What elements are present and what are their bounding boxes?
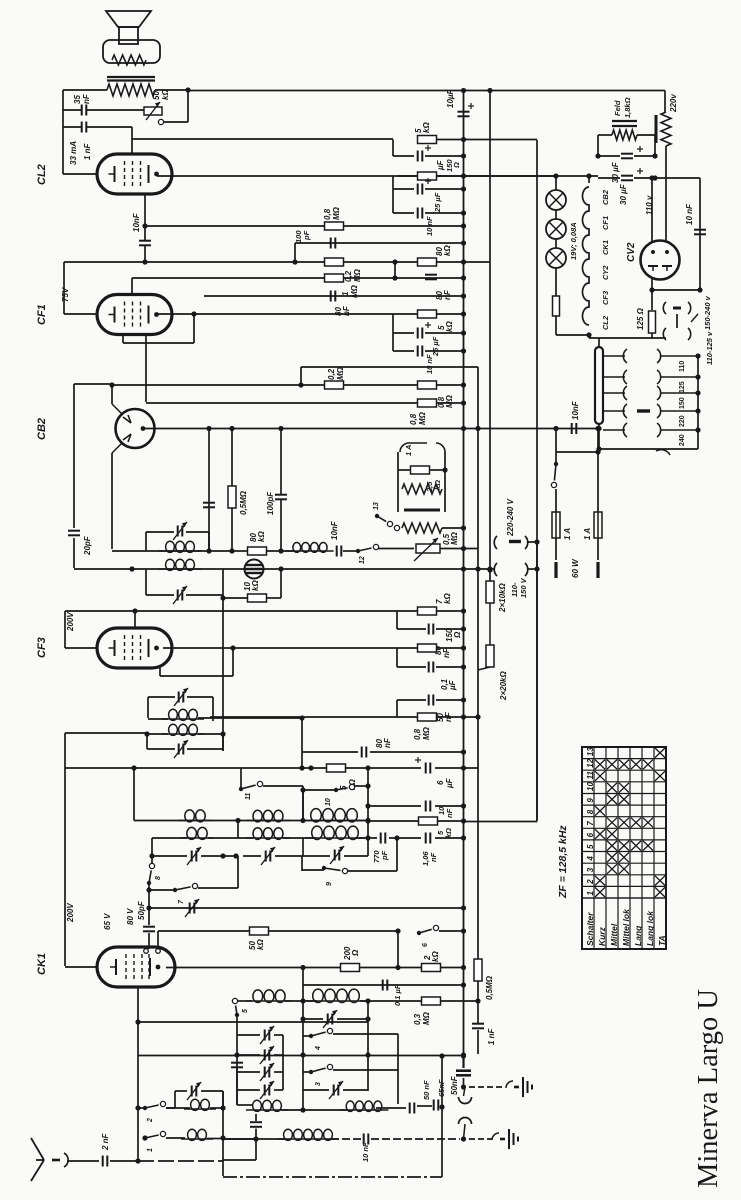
- svg-text:1 nF: 1 nF: [487, 1027, 496, 1045]
- label 0.8M row717 a: [413, 728, 422, 740]
- label 10nF det: [330, 520, 339, 540]
- wire sw3 b: [333, 1069, 398, 1071]
- wire row838 f: [435, 837, 464, 839]
- resistor 2.5k: [411, 466, 430, 474]
- wire CL2 anode: [157, 175, 598, 177]
- node 368-1019: [365, 1016, 370, 1021]
- svg-text:150 V: 150 V: [519, 577, 528, 598]
- node 462-296: [461, 293, 466, 298]
- wire 7k left: [397, 610, 418, 612]
- wire trim ant b: [201, 1090, 223, 1092]
- svg-text:11: 11: [586, 770, 595, 779]
- label 80nF row296 a: [334, 307, 343, 316]
- table label Schalter: [585, 912, 595, 946]
- speaker horn: [106, 11, 151, 27]
- wire row333 a: [393, 332, 414, 334]
- wire row838 e: [389, 837, 421, 839]
- node anode lamp: [553, 173, 558, 178]
- wire left cathode bus: [62, 90, 64, 174]
- label 1.8k: [623, 97, 632, 118]
- wire sw11 up: [240, 768, 242, 789]
- svg-text:2 nF: 2 nF: [101, 1132, 110, 1151]
- svg-text:0,5MΩ: 0,5MΩ: [239, 490, 248, 515]
- node 465-1056: [461, 1053, 466, 1058]
- svg-text:nF: nF: [383, 737, 392, 748]
- svg-text:0,1 µF: 0,1 µF: [393, 984, 402, 1006]
- label 150-240V: [703, 295, 712, 330]
- svg-text:4: 4: [315, 1046, 322, 1051]
- rail 368 band: [367, 768, 369, 838]
- node 465-806: [461, 803, 466, 808]
- capacitor 50pF: [143, 927, 155, 932]
- svg-text:Lang: Lang: [633, 925, 643, 946]
- selector tap wire 110 b: [660, 355, 698, 357]
- wire lamp chain b: [555, 210, 557, 219]
- node 465-838: [461, 835, 466, 840]
- bus left 138: [137, 1022, 139, 1161]
- node 462-717: [461, 714, 466, 719]
- label 1M row278 a: [341, 291, 350, 296]
- wire pad2 a: [237, 1054, 260, 1056]
- table number 8: [586, 809, 595, 814]
- resistor 200 row968: [341, 964, 360, 972]
- label 0.5M vol a: [442, 533, 451, 545]
- node 652-178: [649, 175, 654, 180]
- coil ant in 2: [181, 1129, 213, 1140]
- node 395-278: [392, 275, 397, 280]
- svg-text:5: 5: [586, 844, 595, 849]
- wire tr1 b: [337, 1018, 368, 1020]
- svg-text:MΩ: MΩ: [445, 394, 454, 408]
- bus row 569: [74, 568, 244, 570]
- wire pad4 b: [274, 1089, 283, 1091]
- label 10nF row806 a: [437, 806, 446, 815]
- svg-text:CB2: CB2: [36, 418, 48, 440]
- svg-text:50 nF: 50 nF: [422, 1080, 431, 1100]
- wire 281 drop a: [280, 429, 282, 495]
- label 5k row768 b: [348, 779, 357, 790]
- wire trafo top: [598, 338, 600, 347]
- wire mains lead1 b: [555, 489, 557, 512]
- wire 150 right: [437, 647, 464, 649]
- svg-text:CB2: CB2: [601, 189, 610, 205]
- wire CF3 screen: [159, 668, 161, 676]
- svg-text:150-240 v: 150-240 v: [703, 295, 712, 330]
- svg-text:Feld: Feld: [613, 100, 622, 116]
- svg-text:ZF = 128,5 kHz: ZF = 128,5 kHz: [557, 825, 569, 899]
- selector tap wire 220: [603, 410, 625, 412]
- plug upper 2: [663, 314, 698, 340]
- wire 220V b: [665, 146, 667, 241]
- label Feld: [613, 100, 622, 116]
- node 442-1107: [439, 1104, 444, 1109]
- label tap 220: [679, 415, 686, 427]
- capacitor 2nF: [103, 1156, 108, 1167]
- label 7k b: [443, 593, 452, 604]
- node 556-428: [553, 426, 558, 431]
- wire 2x20k link: [478, 603, 490, 670]
- svg-text:10 nF: 10 nF: [425, 216, 434, 236]
- wire row838 c: [283, 837, 316, 839]
- label 65nF bf: [437, 1079, 446, 1097]
- switch 6: [417, 925, 439, 935]
- node 368-838: [365, 835, 370, 840]
- label 80nF row296 b: [342, 305, 351, 316]
- trimmer IF1 primary: [173, 522, 187, 540]
- potentiometer 50k: [144, 107, 162, 115]
- trimmer IF1 secondary: [173, 586, 187, 604]
- label 50pF: [137, 900, 146, 920]
- wire IF2p row b: [198, 717, 302, 719]
- label 0.3M b: [422, 1011, 431, 1025]
- wire sw7 drop: [237, 856, 239, 888]
- label heater CF3: [601, 290, 610, 305]
- wire CK1 g2 down: [137, 987, 139, 1022]
- svg-text:Mittel: Mittel: [609, 923, 619, 946]
- label 5k row768 a: [339, 785, 348, 790]
- node 465-985: [461, 982, 466, 987]
- svg-text:8: 8: [586, 809, 595, 814]
- wire 30b r: [634, 177, 655, 179]
- node 209-551: [206, 548, 211, 553]
- node 281-569: [278, 566, 283, 571]
- wire IF2s left: [146, 734, 148, 749]
- wire CB2 grid up: [111, 385, 113, 404]
- selector tap wire 110: [603, 355, 625, 357]
- label 200V upper: [66, 612, 75, 632]
- svg-text:10 nF: 10 nF: [361, 1142, 370, 1162]
- pot 0.5M arrow: [414, 538, 438, 561]
- capacitor 50nF out: [456, 1071, 471, 1076]
- coil bf LW: [246, 1100, 288, 1111]
- label 1A barretter: [404, 445, 413, 456]
- resistor 150 row648: [418, 644, 437, 652]
- label 50k a: [248, 941, 257, 950]
- bus row 385: [112, 384, 464, 386]
- ground 1: [506, 1077, 532, 1097]
- node 236-856: [233, 853, 238, 858]
- table number 2: [586, 879, 595, 885]
- wire row213 b: [425, 212, 464, 214]
- capacitor 50nF bf: [410, 1103, 415, 1114]
- node 655-178: [652, 175, 657, 180]
- wire trim856 d: [275, 855, 302, 857]
- wire sw2 right: [166, 1107, 175, 1109]
- node 462-403: [461, 400, 466, 405]
- svg-text:9: 9: [326, 882, 333, 886]
- wire IF2s row a: [147, 733, 168, 735]
- node 478-717: [475, 714, 480, 719]
- trimmer band MW: [261, 847, 275, 865]
- wire heater bottom: [588, 336, 590, 338]
- rail 237: [236, 1015, 238, 1105]
- capacitor 25uF row333: [418, 328, 423, 339]
- wire 7k right: [437, 610, 464, 612]
- wire CF3 screen brkt: [160, 675, 233, 677]
- trimmer ant: [187, 1082, 201, 1100]
- rail 303 osc: [302, 968, 304, 1111]
- antenna symbol: [31, 1138, 44, 1181]
- wire pad1 b: [274, 1034, 283, 1036]
- svg-text:kΩ: kΩ: [444, 828, 453, 838]
- label 100pF row243 a: [294, 230, 303, 243]
- label 50nF bf: [422, 1080, 431, 1100]
- svg-text:10 nF: 10 nF: [685, 203, 694, 225]
- wire 152 838-856: [151, 838, 153, 856]
- node 368-806: [365, 803, 370, 808]
- wire tr2 b: [343, 1089, 368, 1091]
- label 150 row648 b: [453, 631, 462, 639]
- svg-text:10µF: 10µF: [446, 88, 455, 108]
- resistor 5k row314: [418, 310, 437, 318]
- tube CF3: [97, 628, 172, 668]
- svg-text:1 A: 1 A: [563, 528, 572, 540]
- svg-text:pF: pF: [380, 850, 389, 861]
- node 397-838: [394, 835, 399, 840]
- svg-text:50pF: 50pF: [137, 900, 146, 920]
- svg-text:CK1: CK1: [36, 953, 48, 975]
- label 0.1uF a: [440, 678, 449, 690]
- resistor 2x20k: [486, 645, 494, 667]
- selector node 150: [695, 390, 700, 395]
- bus top 90: [188, 90, 665, 92]
- capacitor 10nF row428: [572, 423, 577, 434]
- wire antcoil b: [331, 1138, 361, 1140]
- wire pad4 a: [237, 1089, 260, 1091]
- wire cluster r: [444, 452, 446, 512]
- wire 1nF down: [131, 127, 133, 139]
- coil sec LW: [180, 827, 214, 839]
- node 223-598: [220, 595, 225, 600]
- table number 12: [586, 758, 595, 767]
- switch 11: [239, 781, 263, 791]
- wire 281 drop b: [280, 500, 282, 551]
- wire 397 838-871: [396, 838, 398, 871]
- coil osc MW: [306, 989, 366, 1002]
- wire 35nF left: [63, 109, 81, 111]
- svg-text:µF: µF: [436, 159, 445, 171]
- wire 0.1 row667 a: [397, 666, 426, 668]
- bus row 367: [301, 366, 478, 368]
- wire sw4 drop: [397, 1034, 399, 1104]
- wire 30a l: [598, 155, 620, 157]
- wire row189 a: [393, 188, 414, 190]
- node 462-189: [461, 186, 466, 191]
- capacitor 10nF row806: [426, 801, 431, 812]
- label 33mA: [69, 141, 78, 165]
- capacitor 0.1uF row667: [429, 662, 434, 673]
- label switch 10: [325, 798, 332, 806]
- svg-text:0,5MΩ: 0,5MΩ: [485, 975, 494, 1000]
- wire sw1 right: [166, 1137, 185, 1139]
- bus row 178: [598, 177, 620, 179]
- label 0.2M row385 b: [336, 366, 345, 380]
- bus row 1022: [138, 1021, 368, 1023]
- wire sw7 row: [149, 889, 175, 891]
- node 462-548: [461, 546, 466, 551]
- wire row717 r: [437, 716, 478, 718]
- wire ant row right: [138, 1160, 223, 1162]
- wire pot wiper: [163, 121, 188, 123]
- label 1.06nF a: [421, 851, 430, 866]
- table number 13: [586, 747, 595, 756]
- label 1nF: [487, 1027, 496, 1045]
- selector arc pair 150: [623, 386, 660, 400]
- plus row189: [425, 178, 431, 184]
- wire selector feed: [676, 314, 678, 328]
- potentiometer 0.5M vol: [416, 544, 440, 553]
- bus row 931: [158, 930, 398, 932]
- label 0.2M row262 b: [353, 268, 362, 282]
- label 20pF: [83, 535, 92, 556]
- svg-text:CL2: CL2: [36, 164, 48, 185]
- label 0.8M row717 b: [422, 726, 431, 740]
- wire CF1 cathode: [64, 313, 97, 315]
- label 0.3M a: [413, 1013, 422, 1025]
- node 149-908: [146, 905, 151, 910]
- node 311-768: [308, 765, 313, 770]
- node 599-449: [596, 446, 601, 451]
- bus row 820: [134, 820, 369, 822]
- wire row156 b: [425, 155, 464, 157]
- wire row821 c: [464, 821, 479, 823]
- label 0.5M agc: [485, 975, 494, 1000]
- wire trim856 e: [302, 855, 330, 857]
- wire row213 a: [393, 212, 414, 214]
- svg-text:125: 125: [679, 381, 686, 393]
- wire row351 b: [425, 350, 464, 352]
- wire 75V bracket: [63, 262, 65, 314]
- node 598-452: [595, 449, 600, 454]
- switch table grid: [582, 747, 666, 949]
- svg-text:4: 4: [586, 856, 595, 862]
- node 368-820: [365, 818, 370, 823]
- wire row838 d: [355, 837, 377, 839]
- wire row351 a: [393, 350, 414, 352]
- svg-text:3: 3: [586, 867, 595, 872]
- zigzag dropper 2: [402, 523, 442, 533]
- svg-text:30 µF: 30 µF: [619, 183, 628, 205]
- wire CK1 anode: [166, 967, 464, 969]
- capacitor 30uF b: [621, 176, 633, 181]
- wire 30a r: [634, 155, 655, 157]
- bar electrode: [404, 509, 440, 512]
- selector housing arc: [656, 450, 670, 455]
- selector node 220: [695, 408, 700, 413]
- svg-text:12: 12: [359, 556, 366, 564]
- wire CF1 screen up: [193, 314, 195, 343]
- svg-text:MΩ: MΩ: [332, 206, 341, 220]
- node 303-1110: [300, 1107, 305, 1112]
- resistor 0.2M row262: [325, 258, 344, 266]
- label switch 12: [359, 556, 366, 564]
- label 1A right: [583, 528, 592, 540]
- bar 220V: [655, 115, 658, 143]
- selector arc pair 125: [623, 370, 660, 384]
- tube CB2: [116, 409, 155, 448]
- label 0.8M row385 a: [437, 396, 446, 408]
- tube CF1: [97, 295, 172, 335]
- capacitor 80nF row629: [429, 624, 434, 635]
- switch 3: [309, 1064, 333, 1074]
- node 445-470: [442, 467, 447, 472]
- node 465-1055: [461, 1052, 466, 1057]
- dial lamp 3: [546, 248, 566, 268]
- wire pad3 a: [237, 1071, 260, 1073]
- node 223-734: [220, 731, 225, 736]
- resistor 0.8M row403: [418, 399, 437, 407]
- wire 1nF left: [63, 126, 81, 128]
- wire 209 drop: [208, 429, 210, 550]
- wire bf row b: [281, 1109, 348, 1111]
- wire sw12 on: [378, 548, 414, 550]
- label 2nF: [101, 1132, 110, 1151]
- svg-text:110-125 v: 110-125 v: [705, 331, 714, 365]
- svg-text:6: 6: [436, 780, 445, 785]
- bus row 1055: [138, 1055, 464, 1057]
- wire sw1 coil b: [207, 1138, 223, 1140]
- wire 238 820-838: [237, 820, 239, 838]
- svg-text:CF3: CF3: [601, 290, 610, 305]
- svg-text:200V: 200V: [66, 903, 75, 923]
- wire sw2 coil a: [166, 1107, 190, 1109]
- label 5k row314 b: [445, 321, 454, 332]
- node 465-768: [461, 765, 466, 770]
- wire lamp chain d: [555, 268, 557, 296]
- label switch 5: [242, 1009, 249, 1013]
- svg-text:MΩ: MΩ: [422, 1011, 431, 1025]
- wire 385 to 367: [300, 367, 302, 385]
- svg-text:110: 110: [679, 361, 686, 372]
- label 10nF coupling: [132, 212, 141, 232]
- wire row139 r: [437, 139, 464, 141]
- switch 10: [334, 784, 355, 792]
- bus screen 139: [132, 138, 393, 140]
- svg-text:Mittel lok: Mittel lok: [621, 908, 631, 946]
- svg-text:10nF: 10nF: [571, 400, 580, 420]
- selector tap wire 150 b: [660, 392, 698, 394]
- wire heater top: [588, 176, 590, 183]
- node 462-176: [461, 173, 466, 178]
- wire tr1 a: [303, 1018, 323, 1020]
- label 60W: [571, 558, 580, 578]
- table label Kurz: [597, 926, 607, 946]
- plus 30uF a: [637, 146, 643, 152]
- svg-text:pF: pF: [302, 230, 311, 241]
- svg-text:CF3: CF3: [36, 637, 48, 658]
- wire sw11 drop: [302, 786, 304, 818]
- resistor 0.8M row717: [418, 713, 437, 721]
- trimmer osc pad: [185, 899, 199, 917]
- wire osc left rail: [133, 768, 135, 821]
- svg-text:Ω: Ω: [351, 949, 360, 957]
- wire 50pF down: [148, 933, 150, 949]
- wire trim ant a: [175, 1090, 187, 1092]
- bus row 278: [132, 277, 464, 279]
- svg-text:2×10kΩ: 2×10kΩ: [498, 583, 507, 613]
- trimmer osc 2: [329, 1081, 343, 1099]
- node 256-1139: [253, 1136, 258, 1141]
- resistor 0.5M det: [228, 486, 236, 508]
- svg-text:CV2: CV2: [626, 242, 637, 262]
- label 80nF row629 a: [434, 646, 443, 655]
- wire 200V corner: [65, 732, 147, 734]
- capacitor 1.06nF: [426, 833, 431, 844]
- wire field down: [597, 135, 599, 156]
- label tap 110: [679, 361, 686, 372]
- capacitor 0.1uF osc: [383, 980, 388, 991]
- label 10nF ant: [361, 1142, 370, 1162]
